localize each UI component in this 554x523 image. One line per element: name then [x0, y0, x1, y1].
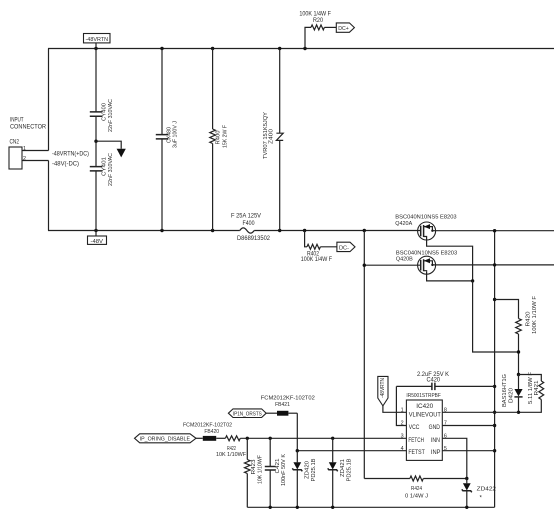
- ferrite bead FB421 FCM2012KF-102T02: [261, 395, 315, 415]
- wire pin5 INP line: [442, 450, 494, 452]
- svg-text:FCM2012KF-102T02: FCM2012KF-102T02: [183, 422, 232, 428]
- resistor R421 5.11 1/8W F: [519, 371, 544, 412]
- capacitor C421 100nF 50V K: [265, 437, 287, 508]
- svg-text:100K 1/4W F: 100K 1/4W F: [301, 256, 332, 263]
- svg-text:IP1N_ORSTS: IP1N_ORSTS: [233, 412, 262, 418]
- wire top -48VRTN rail: [48, 48, 554, 50]
- svg-text:R423: R423: [251, 460, 257, 475]
- svg-text:Q420B: Q420B: [396, 257, 413, 263]
- node IP_ORING_DISABLE flag: [135, 434, 197, 443]
- resistor R424 0 1/4W J: [364, 476, 467, 500]
- resistor R400 15K 2W F: [210, 49, 229, 231]
- wire flag to pin1: [383, 406, 407, 412]
- svg-text:IC420: IC420: [416, 403, 434, 410]
- svg-text:0 1/4W J: 0 1/4W J: [405, 494, 428, 500]
- svg-text:C421: C421: [275, 459, 281, 474]
- wire Q420B source join: [427, 271, 473, 281]
- svg-text:3uF 100V J: 3uF 100V J: [172, 121, 178, 148]
- wire left vertical rail lower: [48, 161, 50, 231]
- svg-text:BAS16HT1G: BAS16HT1G: [502, 374, 508, 407]
- node D420/R421 top junction: [517, 373, 520, 376]
- svg-text:10K 1/10WF: 10K 1/10WF: [257, 454, 263, 484]
- ground chassis arrow: [94, 140, 126, 158]
- svg-text:D420: D420: [508, 388, 514, 403]
- wire main output vertical: [494, 231, 496, 508]
- svg-text:DC-: DC-: [339, 245, 349, 251]
- varistor Z400 TVR07151K5JQY: [263, 49, 283, 231]
- wire FETST line to pin4: [297, 450, 406, 452]
- svg-text:DC+: DC+: [338, 26, 349, 32]
- wire bottom ground rail: [247, 506, 494, 508]
- node Q420B gate junction: [363, 264, 366, 267]
- svg-text:Q420A: Q420A: [395, 221, 412, 227]
- wire pin8 line: [442, 411, 518, 413]
- svg-text:-48VRTN(+DC): -48VRTN(+DC): [52, 150, 89, 157]
- svg-text:R421: R421: [534, 381, 540, 396]
- capacitor CX480 3uF 100V J: [156, 49, 179, 231]
- svg-text:ZD420: ZD420: [305, 461, 311, 479]
- resistor R420 100K 1/10W F: [495, 295, 538, 374]
- svg-text:-48V(-DC): -48V(-DC): [52, 160, 79, 167]
- wire pin6 INN down: [442, 438, 467, 478]
- svg-text:ZD421: ZD421: [340, 459, 346, 477]
- svg-text:FB421: FB421: [275, 402, 290, 408]
- svg-text:VLINEVOUT: VLINEVOUT: [409, 412, 441, 419]
- svg-text:R420: R420: [526, 312, 532, 327]
- diode D420 BAS16HT1G: [502, 374, 523, 412]
- svg-text:FETCH: FETCH: [408, 437, 424, 444]
- svg-text:15K 2W F: 15K 2W F: [222, 124, 228, 148]
- zener ZD421 PD25.1B: [328, 437, 353, 508]
- transistor Q420B BSC040N10NS5 E8203: [396, 251, 457, 275]
- svg-text:GND: GND: [429, 424, 441, 431]
- ferrite bead FB420 FCM2012KF-102T02: [183, 422, 232, 440]
- svg-text:F 25A 125V: F 25A 125V: [231, 212, 262, 219]
- wire Q420B gate: [364, 264, 420, 266]
- wire left vertical rail upper: [48, 49, 50, 151]
- svg-text:IR5001STRPBF: IR5001STRPBF: [406, 393, 441, 399]
- svg-text:2: 2: [23, 156, 26, 162]
- svg-text:CONNECTOR: CONNECTOR: [10, 124, 47, 131]
- node sources junction: [471, 279, 474, 282]
- wire bottom rail fuse to Q420A gate: [254, 230, 421, 232]
- svg-text:R400: R400: [215, 131, 221, 145]
- capacitor C420 2.2uF 25V K: [396, 371, 494, 390]
- node sources/R420 junction: [517, 350, 520, 353]
- node dots top rail: [94, 47, 306, 50]
- node dots output vertical: [493, 229, 496, 452]
- svg-text:D868913502: D868913502: [237, 235, 271, 242]
- transistor Q420A BSC040N10NS5 E8203: [395, 214, 456, 240]
- node IP1N_ORSTS flag: [228, 409, 266, 418]
- svg-text:FCM2012KF-102T02: FCM2012KF-102T02: [261, 395, 315, 401]
- svg-text:CN2: CN2: [10, 139, 20, 146]
- wire C420 left to VCC pin2: [396, 386, 406, 425]
- node DC- flag: [337, 242, 355, 251]
- node -48V label box: [88, 231, 107, 246]
- fuse F400: [231, 212, 271, 242]
- svg-text:-48VRTN: -48VRTN: [380, 378, 386, 398]
- wire Q420A drain to right edge: [432, 230, 554, 232]
- svg-text:100nF 50V K: 100nF 50V K: [281, 454, 287, 486]
- svg-text:2: 2: [401, 421, 404, 427]
- svg-text:ZD422: ZD422: [477, 486, 496, 492]
- svg-text:BSC040N10NS5 E8203: BSC040N10NS5 E8203: [396, 251, 457, 257]
- wire gates vertical: [363, 231, 365, 479]
- node -48VRTN label box: [84, 34, 111, 49]
- svg-text:PD25.1B: PD25.1B: [311, 458, 317, 481]
- node dots bottom rail: [94, 229, 366, 232]
- node DC+ flag: [336, 23, 354, 32]
- svg-text:Z400: Z400: [268, 129, 274, 144]
- wire CN2 pin1: [22, 150, 49, 152]
- svg-text:R20: R20: [313, 17, 324, 24]
- svg-text:1: 1: [401, 408, 404, 414]
- resistor R402 100K 1/4W F: [301, 231, 337, 264]
- svg-text:22nF 310VAC: 22nF 310VAC: [108, 153, 114, 186]
- wire bottom -48V rail left of fuse: [48, 230, 240, 232]
- svg-text:1: 1: [23, 146, 26, 152]
- zener ZD420 PD25.1B: [292, 451, 317, 508]
- wire pin7 GND line: [442, 425, 494, 427]
- node -48VRTN flag vertical: [378, 376, 388, 406]
- node dots bottom ground rail: [269, 506, 469, 509]
- wire Q420B drain to right edge: [432, 264, 554, 266]
- svg-text:FETST: FETST: [408, 449, 425, 456]
- svg-text:-48VRTN: -48VRTN: [86, 37, 109, 43]
- capacitor CY401 22nF 310VAC: [90, 141, 114, 230]
- svg-text:IP_ORING_DISABLE: IP_ORING_DISABLE: [140, 437, 191, 443]
- svg-text:*: *: [480, 495, 483, 502]
- svg-text:FB420: FB420: [204, 429, 219, 435]
- wire CN2 pin2: [22, 160, 49, 162]
- svg-text:CY401: CY401: [101, 157, 107, 176]
- node D420/R421 bottom junction: [517, 411, 520, 414]
- svg-text:F400: F400: [243, 220, 256, 227]
- svg-text:R424: R424: [411, 486, 422, 492]
- connector CN2: [9, 116, 47, 169]
- wire Q420A source down-right: [427, 237, 473, 281]
- svg-text:100K 1/10W F: 100K 1/10W F: [532, 295, 538, 334]
- svg-text:PD25.1B: PD25.1B: [346, 458, 352, 481]
- svg-text:VCC: VCC: [409, 424, 420, 431]
- op-amp IC420 IR5001STRPBF: [401, 393, 447, 461]
- svg-text:-48V: -48V: [91, 239, 104, 245]
- resistor R20 100K 1/4W F: [299, 11, 336, 49]
- wire sources vertical to R420 bottom: [473, 281, 519, 352]
- wire FETCH line to pin3: [240, 437, 406, 439]
- capacitor CY400 22nF 310VAC: [90, 49, 114, 142]
- svg-text:INP: INP: [431, 449, 441, 456]
- svg-text:INN: INN: [431, 437, 440, 444]
- resistor R423 10K 1/10WF: [245, 437, 264, 508]
- svg-text:10K 1/10WF: 10K 1/10WF: [216, 452, 247, 458]
- zener ZD422: [462, 477, 496, 508]
- svg-text:CY400: CY400: [101, 103, 107, 121]
- svg-text:INPUT: INPUT: [10, 116, 24, 123]
- resistor R422 10K 1/10WF: [216, 436, 247, 458]
- wire FB421 down to FETST: [296, 413, 298, 451]
- node FETST/ZD420 junction: [296, 449, 299, 452]
- svg-text:22nF 310VAC: 22nF 310VAC: [108, 99, 114, 132]
- svg-text:C420: C420: [427, 376, 441, 383]
- svg-text:BSC040N10NS5 E8203: BSC040N10NS5 E8203: [395, 214, 456, 220]
